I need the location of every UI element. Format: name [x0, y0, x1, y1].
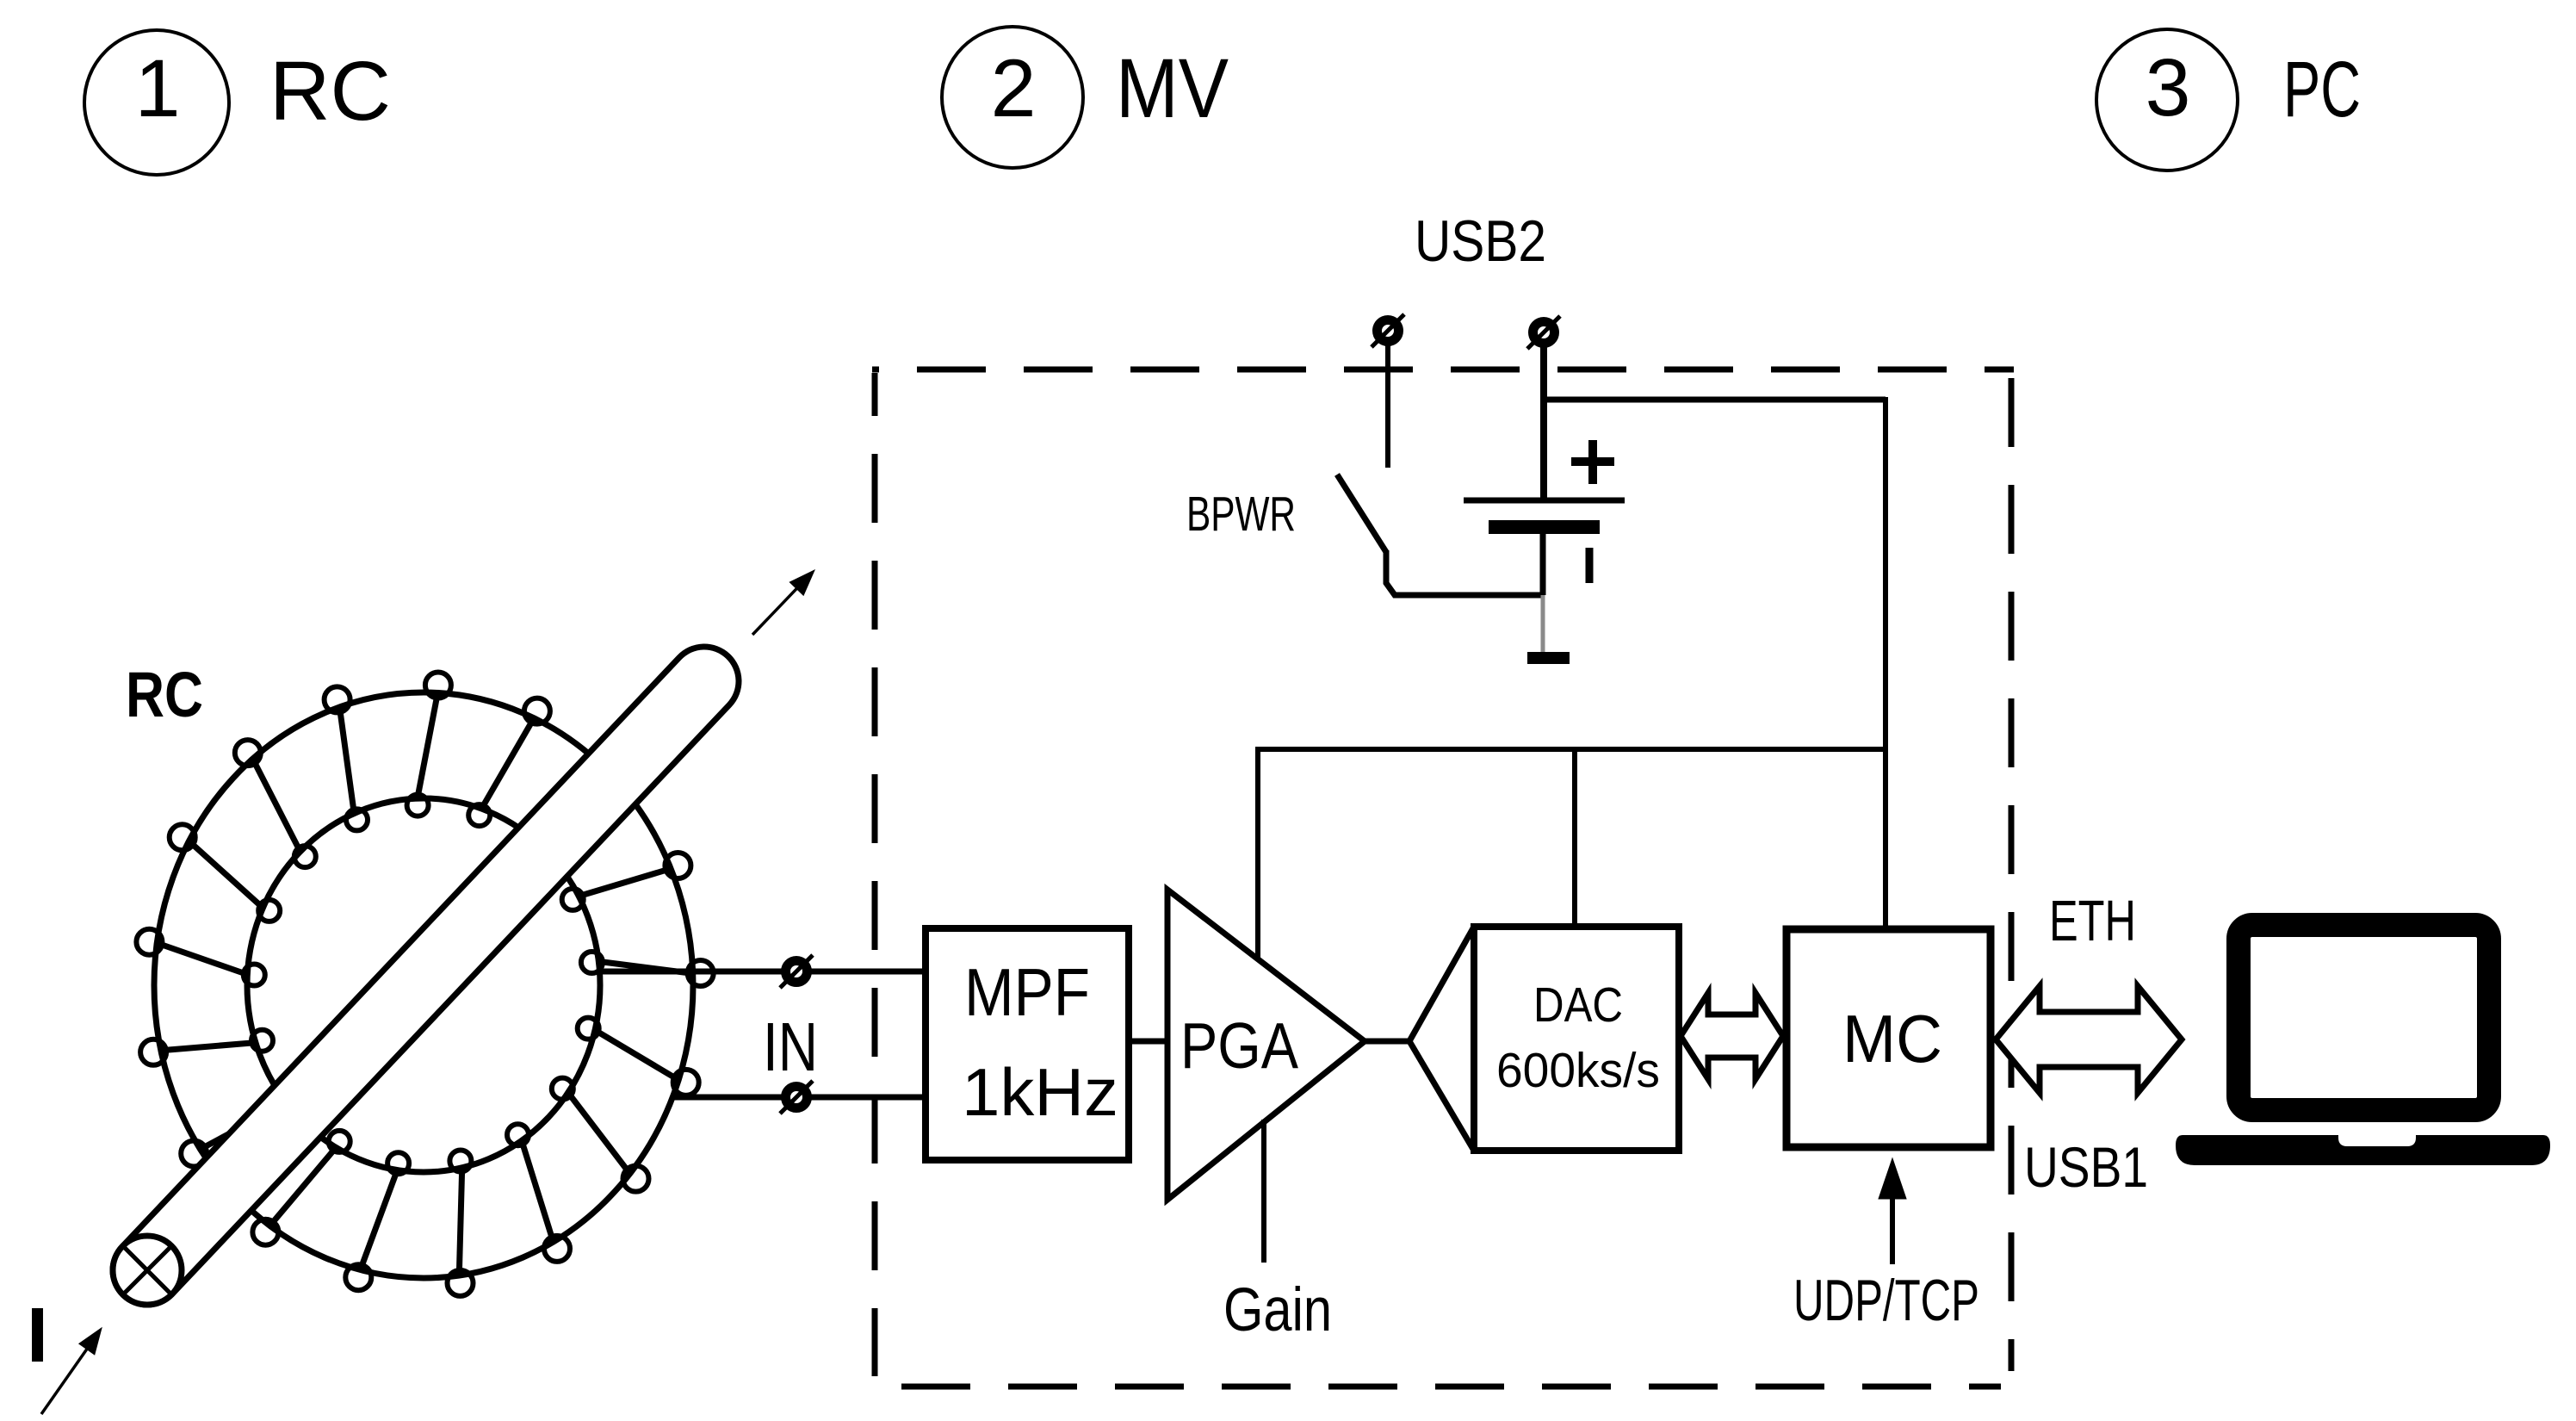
svg-text:MC: MC [1842, 1001, 1942, 1077]
svg-text:1kHz: 1kHz [962, 1054, 1118, 1130]
svg-text:DAC: DAC [1533, 977, 1623, 1033]
svg-text:RC: RC [269, 44, 391, 138]
svg-text:PGA: PGA [1180, 1009, 1298, 1082]
svg-text:RC: RC [126, 659, 203, 730]
svg-text:I: I [27, 1293, 48, 1379]
svg-text:MV: MV [1116, 41, 1229, 135]
svg-text:2: 2 [991, 43, 1037, 134]
svg-text:UDP/TCP: UDP/TCP [1793, 1268, 1979, 1333]
svg-text:USB2: USB2 [1415, 208, 1546, 274]
svg-text:ETH: ETH [2049, 889, 2136, 953]
svg-text:IN: IN [763, 1008, 818, 1085]
svg-text:MPF: MPF [964, 954, 1090, 1030]
svg-text:1: 1 [135, 43, 181, 134]
svg-text:PC: PC [2283, 46, 2361, 133]
svg-text:Gain: Gain [1223, 1276, 1332, 1344]
svg-text:600ks/s: 600ks/s [1496, 1043, 1660, 1098]
svg-text:BPWR: BPWR [1186, 487, 1296, 542]
svg-text:USB1: USB1 [2024, 1135, 2148, 1199]
svg-text:3: 3 [2146, 42, 2191, 133]
